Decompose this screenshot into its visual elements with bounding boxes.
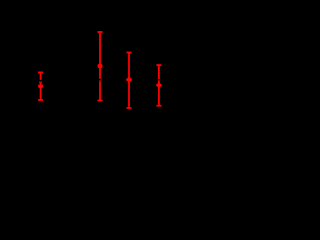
bottom cap P4 (156, 105, 161, 107)
wire: lower stem segment P2 (99, 80, 101, 81)
top cap P2 (98, 31, 103, 33)
top cap P3 (127, 52, 132, 54)
top cap P4 (156, 64, 161, 66)
marker D3 (126, 77, 132, 82)
top cap P1 (38, 71, 43, 73)
bottom cap P3 (127, 107, 132, 109)
bottom cap P1 (38, 99, 43, 101)
wire: lower stem segment P2b (99, 81, 101, 100)
wire: lower stem segment P4 (158, 80, 160, 105)
marker D1 (38, 84, 43, 88)
node: small tick on stem P1 (39, 81, 42, 83)
marker D2 (98, 64, 103, 68)
bottom cap P2 (98, 100, 103, 102)
errorbar point 1 (38, 72, 43, 100)
wire: upper stem segment P1 (40, 72, 42, 80)
errorbar point 2 (98, 32, 103, 101)
marker D4 (156, 83, 162, 87)
wire: lower stem segment P1 (40, 83, 42, 100)
wire: stem P3 (128, 53, 130, 109)
wire: upper stem segment P4 (158, 65, 160, 79)
errorbar point 4 (156, 65, 162, 106)
errorbar point 3 (126, 53, 132, 109)
wire: upper stem segment P2 (99, 32, 101, 79)
